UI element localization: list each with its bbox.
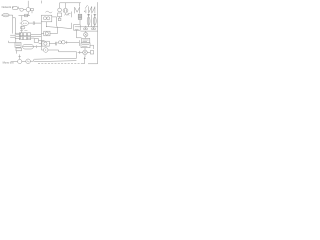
block small R	[90, 51, 93, 54]
wire	[47, 23, 72, 29]
block C	[16, 48, 21, 51]
wire top bus	[60, 2, 81, 4]
node dot	[84, 11, 85, 12]
block Q1	[78, 14, 82, 19]
wire	[33, 46, 36, 48]
wire	[68, 12, 70, 14]
block B1	[19, 33, 22, 36]
wire	[46, 22, 48, 27]
wire	[84, 48, 86, 50]
block small on cross	[25, 14, 28, 17]
wire	[78, 51, 83, 53]
wire	[79, 3, 81, 7]
capacitor tick	[79, 51, 81, 54]
capacitor tick	[36, 45, 38, 48]
source S2	[26, 59, 31, 64]
wire	[85, 9, 87, 13]
source S1	[18, 59, 22, 63]
bus vertical right	[14, 18, 16, 33]
wire	[27, 37, 35, 39]
block demod	[42, 41, 49, 46]
wire	[50, 33, 58, 35]
wire	[39, 40, 45, 42]
block under V2	[58, 13, 62, 17]
tube V4	[21, 21, 28, 26]
tube V3	[63, 8, 68, 13]
mixer M2	[84, 32, 88, 36]
block IF	[41, 15, 51, 22]
node dot	[46, 26, 47, 27]
wire	[81, 30, 98, 32]
mixer M3	[83, 50, 88, 55]
wire bus	[78, 26, 98, 28]
transistor Q2 M-shape	[75, 7, 80, 13]
wire	[31, 33, 42, 35]
wire	[84, 55, 86, 57]
wire	[65, 41, 79, 43]
wire	[57, 27, 59, 34]
block F1 input filter	[12, 7, 17, 10]
transistor Q3	[88, 6, 90, 13]
block A	[15, 33, 21, 38]
wire	[15, 38, 17, 42]
wire	[20, 22, 21, 24]
wire	[57, 42, 58, 44]
capacitor C4	[55, 42, 57, 46]
wire	[71, 12, 73, 18]
wire	[58, 50, 60, 52]
right border	[97, 2, 99, 64]
marks	[65, 14, 70, 16]
tick	[18, 55, 20, 57]
wire	[22, 60, 26, 62]
wire	[29, 22, 33, 24]
delay pill	[33, 58, 76, 61]
border bottom return	[88, 63, 98, 65]
wire	[90, 44, 94, 46]
wire	[40, 1, 42, 4]
pill small	[20, 26, 25, 29]
wire	[56, 17, 58, 27]
wire	[31, 11, 33, 14]
block B3	[27, 33, 30, 36]
wire	[30, 60, 33, 62]
wire	[1, 14, 13, 16]
wire	[27, 12, 29, 16]
block B2	[23, 33, 26, 36]
wire	[59, 3, 61, 8]
wire	[10, 34, 15, 36]
corner wire	[9, 41, 15, 43]
wire	[41, 33, 43, 35]
wire	[59, 51, 77, 53]
wire	[41, 49, 43, 51]
wire	[79, 19, 81, 24]
wire	[76, 37, 81, 39]
block B	[15, 42, 21, 47]
wire	[87, 51, 90, 53]
block small	[58, 18, 61, 21]
tube V2	[58, 8, 62, 12]
wire	[37, 46, 42, 48]
wire	[35, 22, 42, 24]
mixer M1	[26, 8, 30, 12]
wire	[78, 40, 80, 46]
vertical center	[40, 22, 42, 50]
wire	[31, 36, 42, 38]
wire	[23, 9, 26, 11]
block D	[34, 39, 38, 43]
wire	[93, 45, 95, 49]
wire	[65, 3, 67, 8]
tube T4	[93, 17, 96, 25]
block B6	[27, 37, 30, 40]
wire	[11, 61, 18, 63]
block B4	[19, 37, 22, 40]
block cap column	[74, 25, 81, 31]
capacitor C1	[31, 8, 34, 10]
block AGC	[82, 38, 90, 42]
svg-text:Mono out: Mono out	[3, 60, 14, 64]
oval delay	[23, 44, 34, 49]
wire	[21, 26, 23, 33]
tube V5	[43, 48, 48, 53]
block mult	[44, 31, 50, 36]
wire	[75, 30, 77, 38]
capacitor pair P2	[91, 28, 93, 30]
wire	[49, 43, 55, 45]
wire	[59, 17, 61, 19]
wire	[15, 51, 17, 54]
label row	[20, 30, 23, 32]
capacitor pair P1	[83, 28, 85, 30]
capacitor pair P3	[58, 41, 61, 44]
sine label	[46, 11, 53, 13]
bus vertical left	[12, 15, 14, 33]
arrow up	[84, 59, 86, 64]
wire top cross	[19, 15, 31, 17]
diag mark	[85, 5, 88, 9]
block B5	[23, 37, 26, 40]
transistor Q4	[94, 7, 96, 14]
block DET	[81, 43, 90, 48]
wire	[13, 17, 16, 19]
wire	[76, 52, 78, 59]
capacitor C3	[32, 21, 34, 24]
wire LO drop	[27, 1, 29, 8]
source V1	[20, 8, 24, 11]
wire	[39, 43, 42, 45]
wire	[10, 36, 15, 38]
tube T3	[87, 17, 90, 25]
wire	[19, 55, 21, 60]
wire	[21, 16, 23, 21]
wire	[48, 49, 59, 51]
dashed feedback	[38, 63, 83, 65]
wire	[52, 16, 57, 18]
capacitor C2 oval	[2, 13, 9, 17]
wire	[18, 7, 20, 9]
